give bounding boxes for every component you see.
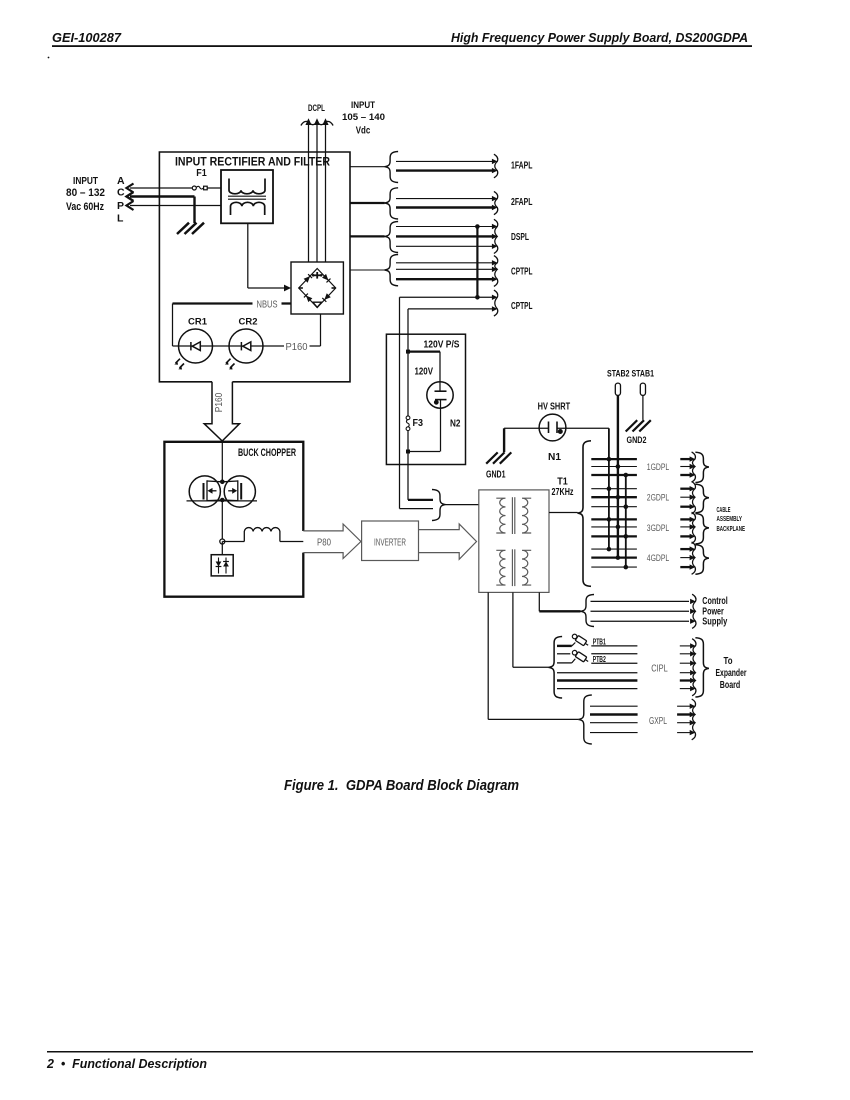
control power arrows bbox=[692, 594, 696, 628]
indicator CR1 circle bbox=[179, 329, 213, 363]
wire transformer to bridge (down) bbox=[247, 223, 249, 288]
bus row 8 bbox=[591, 526, 637, 528]
wire T1 output to bus brace bbox=[549, 512, 578, 514]
svg-text:P80: P80 bbox=[317, 537, 331, 549]
wire fuse F1 to transformer bbox=[207, 187, 221, 189]
CR2 internal wire bbox=[229, 345, 263, 347]
ground GND2 bbox=[626, 420, 638, 431]
DSPL line 1 bbox=[396, 226, 492, 228]
junction dot CPTPL bus bottom bbox=[475, 295, 480, 300]
junction dot v1@519.4 bbox=[607, 517, 612, 522]
svg-text:1FAPL: 1FAPL bbox=[511, 159, 533, 171]
wire DCPL line 2 bbox=[316, 122, 318, 262]
STAB2 terminal stub bbox=[615, 383, 620, 395]
junction dot v1@549.1 bbox=[607, 547, 612, 552]
T1 input gathering brace bbox=[432, 490, 446, 521]
junction dot v3@567.1 bbox=[624, 565, 629, 570]
wire P/S bottom bbox=[408, 451, 440, 453]
svg-text:80 – 132: 80 – 132 bbox=[66, 187, 105, 199]
svg-text:STAB2 STAB1: STAB2 STAB1 bbox=[607, 369, 655, 380]
svg-text:HV SHRT: HV SHRT bbox=[538, 400, 571, 412]
CIPL dash 1 (thick) bbox=[557, 645, 572, 647]
junction dot (transistor bottom) bbox=[220, 498, 225, 503]
header rule bbox=[52, 45, 752, 47]
svg-text:Board: Board bbox=[720, 680, 741, 691]
junction dot DSPL bus top bbox=[475, 224, 480, 229]
2FAPL connector brace bbox=[385, 188, 399, 219]
wire node to inductor bbox=[222, 541, 244, 543]
3GDPL arrows bbox=[680, 518, 691, 520]
CIPL line 6 bbox=[557, 688, 637, 690]
bridge diodes bbox=[304, 274, 312, 282]
wire inductor to P80 arrow bbox=[280, 541, 303, 543]
wire transformer to bridge (right) bbox=[248, 287, 288, 289]
svg-text:T1: T1 bbox=[557, 477, 568, 488]
Q2 symbol bbox=[240, 483, 242, 500]
svg-text:ASSEMBLY: ASSEMBLY bbox=[717, 514, 743, 523]
bus row 2 bbox=[591, 466, 637, 468]
svg-text:F1: F1 bbox=[196, 167, 207, 179]
svg-text:DSPL: DSPL bbox=[511, 231, 529, 243]
bus tie DSPL to CPTPL (vertical) bbox=[476, 227, 478, 298]
2GDPL arrows bbox=[680, 488, 691, 490]
input arrowhead C bbox=[127, 184, 134, 193]
ground (input chassis) bbox=[177, 223, 189, 234]
svg-text:27KHz: 27KHz bbox=[552, 487, 574, 498]
bus row 4 bbox=[591, 488, 637, 490]
CPTPL line 2 bbox=[396, 268, 492, 270]
junction dot v2@557.6 bbox=[616, 555, 621, 560]
2GDPL brace bbox=[695, 484, 709, 513]
filter transformer box bbox=[221, 170, 273, 223]
svg-text:GXPL: GXPL bbox=[649, 715, 667, 727]
wire lamp N2 bottom lead bbox=[440, 400, 442, 452]
bridge rectifier box bbox=[291, 262, 343, 314]
CPTPL2 line 2 bbox=[408, 308, 492, 310]
wire input C to fuse F1 bbox=[130, 187, 192, 189]
CIPL line 2 bbox=[591, 653, 637, 655]
junction dot v1@488.7 bbox=[607, 486, 612, 491]
CPTPL line 1 bbox=[396, 262, 492, 264]
wire input P (thick) bbox=[130, 195, 195, 197]
3GDPL brace bbox=[695, 514, 709, 544]
wire stub to 1FAPL connector bbox=[350, 166, 385, 168]
svg-text:P160: P160 bbox=[214, 392, 225, 412]
junction node ring (inductor node) bbox=[220, 539, 225, 544]
svg-text:105 – 140: 105 – 140 bbox=[342, 112, 385, 123]
wire NBUS (thick) bbox=[173, 302, 253, 304]
1FAPL connector arrows bbox=[494, 154, 498, 178]
wire brace to T1 bbox=[446, 504, 479, 506]
fuse PTB1 bbox=[571, 633, 590, 648]
bus row 11 bbox=[591, 556, 637, 558]
CR1 diode symbol bbox=[192, 342, 200, 351]
CIPL line 4 bbox=[557, 672, 637, 674]
DSPL line 3 bbox=[396, 245, 492, 247]
CIPL dash 3 bbox=[557, 662, 572, 664]
P80 hollow arrow bbox=[303, 524, 361, 559]
svg-text:BUCK CHOPPER: BUCK CHOPPER bbox=[238, 447, 296, 459]
bus gathering brace (left) bbox=[578, 441, 592, 587]
lamp N2 circle bbox=[427, 382, 453, 408]
CPTPL connector arrows bbox=[494, 256, 498, 287]
filter transformer secondary winding bbox=[231, 202, 265, 215]
DCPL connector arrows (up) bbox=[301, 121, 333, 125]
wire lamp N2 top lead bbox=[439, 352, 441, 392]
1FAPL line 2 bbox=[396, 169, 492, 171]
wire node to diode box bbox=[221, 542, 223, 555]
GXPL line 4 bbox=[590, 732, 638, 734]
wire DCPL line 1 bbox=[308, 122, 310, 262]
junction square (P/S bottom) bbox=[406, 450, 410, 454]
wire P160 to CR2 bbox=[264, 345, 285, 347]
gate drive line through transistors bbox=[187, 500, 258, 502]
svg-text:N1: N1 bbox=[548, 451, 561, 463]
junction dot v2@526.9 bbox=[616, 525, 621, 530]
lamp N1 electrodes bbox=[548, 422, 550, 434]
svg-text:Supply: Supply bbox=[702, 617, 727, 628]
CIPL connector arrows bbox=[680, 645, 691, 647]
svg-text:CPTPL: CPTPL bbox=[511, 265, 533, 277]
junction dot v3@506.7 bbox=[624, 504, 629, 509]
STAB1 terminal stub bbox=[640, 383, 645, 395]
wire transistors to inductor node bbox=[221, 500, 223, 542]
svg-text:CR2: CR2 bbox=[239, 317, 258, 327]
2FAPL line 1 bbox=[396, 198, 492, 200]
CPTPL2 connector arrows bbox=[494, 290, 498, 316]
CR1 internal wire bbox=[179, 345, 213, 347]
junction dot v2@497.2 bbox=[616, 495, 621, 500]
bus row 1 bbox=[591, 458, 637, 460]
wire N1 left bbox=[504, 427, 548, 429]
wire CPTPL2-2 down into 120V P/S bbox=[407, 309, 409, 416]
svg-text:INVERTER: INVERTER bbox=[374, 537, 406, 549]
block 120V P/S box bbox=[386, 334, 465, 464]
bus row 7 bbox=[591, 518, 637, 520]
1FAPL line 1 bbox=[396, 160, 492, 162]
CPTPL line 3 bbox=[396, 278, 492, 280]
svg-text:INPUT: INPUT bbox=[73, 175, 98, 187]
wire bridge bottom to P160 node bbox=[320, 314, 322, 346]
junction dot (transistor top) bbox=[220, 480, 225, 485]
CIPL line 5 (thick) bbox=[557, 679, 637, 681]
svg-text:Vac 60Hz: Vac 60Hz bbox=[66, 201, 104, 213]
wire N1 to GND1 (thick) bbox=[503, 428, 505, 452]
Q1 symbol bbox=[203, 483, 205, 500]
svg-text:4GDPL: 4GDPL bbox=[647, 553, 670, 564]
bus row 12 bbox=[591, 566, 637, 568]
svg-text:NBUS: NBUS bbox=[257, 299, 278, 311]
input arrowhead P bbox=[127, 192, 134, 201]
CIPL line 3 bbox=[591, 662, 637, 664]
wire N1 right to bus bbox=[557, 427, 609, 429]
expander brace bbox=[695, 638, 709, 697]
svg-text:CIPL: CIPL bbox=[651, 663, 668, 675]
GXPL line 3 bbox=[590, 722, 638, 724]
bus vertical v1 (from N1) bbox=[608, 428, 610, 549]
ground GND1 bbox=[486, 452, 498, 463]
GXPL line 1 bbox=[590, 705, 638, 707]
freewheel diode box bbox=[211, 555, 233, 576]
wire DCPL line 3 bbox=[325, 122, 327, 262]
freewheel diodes bbox=[218, 558, 220, 574]
bus vertical v2 (from STAB2, thick) bbox=[617, 395, 619, 557]
svg-text:CABLE: CABLE bbox=[717, 505, 731, 514]
svg-text:L: L bbox=[117, 213, 124, 225]
wire T1 bottom to CIPL bbox=[512, 592, 514, 667]
inverter output hollow arrow bbox=[419, 524, 477, 559]
svg-text:CR1: CR1 bbox=[188, 317, 207, 327]
fuse F3 bbox=[406, 416, 410, 420]
wire T1 feed thin turn bbox=[400, 508, 434, 510]
CR2 diode symbol bbox=[243, 342, 251, 351]
svg-text:A: A bbox=[117, 175, 125, 187]
T1 upper transformer bbox=[496, 498, 505, 533]
svg-text:2GDPL: 2GDPL bbox=[647, 493, 670, 504]
junction square (P/S top) bbox=[406, 350, 410, 354]
wire CPTPL2-1 down to T1 feed bbox=[399, 297, 401, 508]
1FAPL connector brace bbox=[385, 152, 399, 183]
P160 hollow arrow (down into buck chopper) bbox=[204, 382, 239, 441]
wire to CIPL brace bbox=[513, 666, 549, 668]
junction dot v3@475.0 bbox=[624, 473, 629, 478]
GXPL connector arrows bbox=[677, 705, 690, 707]
svg-text:F3: F3 bbox=[413, 417, 424, 429]
wire T1 bottom to control power bbox=[538, 592, 540, 611]
wire STAB1 to GND2 bbox=[642, 395, 644, 420]
wire P/S top (thick) bbox=[408, 351, 440, 353]
bus row 10 bbox=[591, 548, 637, 550]
svg-text:C: C bbox=[117, 187, 125, 199]
svg-text:120V: 120V bbox=[415, 366, 434, 378]
bus row 6 bbox=[591, 506, 637, 508]
bus row 9 bbox=[591, 535, 637, 537]
svg-text:GND2: GND2 bbox=[627, 435, 647, 446]
arrowhead into bridge bbox=[284, 285, 291, 292]
lamp N1 circle bbox=[539, 414, 566, 441]
T1 lower transformer bbox=[496, 550, 505, 585]
svg-text:P: P bbox=[117, 200, 124, 212]
stray dot under header bbox=[48, 57, 50, 59]
junction dot v2@466.5 bbox=[616, 464, 621, 469]
GXPL connector brace bbox=[578, 695, 592, 744]
svg-text:P160: P160 bbox=[286, 341, 308, 353]
junction dot v3@536.4 bbox=[624, 534, 629, 539]
4GDPL arrows bbox=[680, 548, 691, 550]
CPTPL connector brace bbox=[385, 255, 399, 286]
wire CR1 to CR2 bbox=[213, 345, 230, 347]
wire input L to filter transformer bbox=[130, 205, 221, 207]
bus row 5 bbox=[591, 496, 637, 498]
control power connector brace bbox=[581, 595, 595, 627]
wire input P drop to ground bbox=[193, 197, 195, 224]
fuse F1 bbox=[192, 186, 196, 190]
svg-text:Figure 1. GDPA Board Block Di: Figure 1. GDPA Board Block Diagram bbox=[284, 778, 519, 794]
1GDPL brace bbox=[695, 452, 709, 482]
svg-text:N2: N2 bbox=[450, 418, 461, 430]
fuse PTB2 bbox=[571, 649, 590, 664]
CIPL connector brace bbox=[549, 637, 563, 699]
wire P160 node horizontal bbox=[310, 345, 321, 347]
svg-text:DCPL: DCPL bbox=[308, 103, 325, 114]
svg-text:2 • Functional Description: 2 • Functional Description bbox=[46, 1057, 207, 1071]
4GDPL brace bbox=[695, 545, 709, 575]
svg-text:High Frequency Power Supply Bo: High Frequency Power Supply Board, DS200… bbox=[451, 30, 748, 45]
block BUCK CHOPPER box (gap at right for P80 arrow) bbox=[164, 442, 303, 597]
control power line 1 bbox=[591, 600, 690, 602]
wire stub to DSPL connector bbox=[350, 235, 385, 237]
wire P160 into transistors bbox=[221, 441, 223, 482]
CR1 LED emission arrows bbox=[176, 359, 181, 364]
svg-text:To: To bbox=[724, 656, 733, 667]
svg-text:GND1: GND1 bbox=[486, 469, 506, 481]
svg-text:Vdc: Vdc bbox=[356, 125, 371, 137]
svg-text:3GDPL: 3GDPL bbox=[647, 523, 670, 534]
CR2 LED emission arrows bbox=[226, 359, 231, 364]
svg-text:PTB1: PTB1 bbox=[593, 638, 606, 647]
transistor Q2 circle bbox=[224, 476, 255, 507]
CPTPL2 line 1 bbox=[400, 296, 493, 298]
DSPL line 2 bbox=[396, 235, 492, 237]
bus vertical v3 bbox=[625, 475, 627, 567]
bridge diamond bbox=[299, 269, 336, 308]
transistor Q1 circle bbox=[189, 476, 220, 507]
wire T1 bottom to GXPL bbox=[487, 592, 489, 719]
wire to control power brace (thick) bbox=[539, 610, 580, 612]
2FAPL line 2 bbox=[396, 206, 492, 208]
DSPL connector arrows bbox=[494, 219, 498, 253]
svg-text:Expander: Expander bbox=[716, 668, 747, 679]
wire F3 to bottom junction bbox=[407, 431, 409, 500]
inductor L1 bbox=[244, 528, 280, 542]
2FAPL connector arrows bbox=[494, 191, 498, 214]
svg-text:CPTPL: CPTPL bbox=[511, 300, 533, 312]
input arrowhead L bbox=[127, 201, 134, 210]
lamp N2 electrodes bbox=[435, 390, 447, 392]
control power line 3 bbox=[591, 620, 690, 622]
svg-text:BACKPLANE: BACKPLANE bbox=[717, 524, 746, 533]
wire NBUS down to CR1 bbox=[172, 304, 174, 347]
GXPL line 2 bbox=[590, 713, 638, 715]
filter transformer core bbox=[228, 195, 266, 197]
CIPL dash 2 bbox=[557, 653, 570, 655]
wire stub to 2FAPL connector bbox=[350, 202, 385, 204]
indicator CR2 circle bbox=[229, 329, 263, 363]
block transformer T1 box bbox=[479, 490, 549, 593]
junction dot v1@459.1 bbox=[607, 457, 612, 462]
footer rule bbox=[47, 1051, 753, 1053]
svg-text:120V P/S: 120V P/S bbox=[424, 339, 460, 351]
svg-text:GEI-100287: GEI-100287 bbox=[52, 31, 122, 45]
svg-text:INPUT: INPUT bbox=[351, 100, 375, 111]
1GDPL arrows bbox=[680, 458, 691, 460]
wire NBUS stub to CR1 bbox=[173, 345, 179, 347]
bridge corner marks bbox=[314, 274, 321, 276]
DSPL connector brace bbox=[385, 222, 399, 253]
wire NBUS to bridge bbox=[282, 302, 292, 304]
CIPL line 1 bbox=[591, 645, 637, 647]
wire stub to CPTPL connector bbox=[350, 269, 385, 271]
wire P/S feed thick turn bbox=[408, 499, 433, 501]
filter transformer primary winding bbox=[229, 179, 265, 194]
svg-text:2FAPL: 2FAPL bbox=[511, 196, 533, 208]
wire to GXPL brace bbox=[488, 718, 578, 720]
block INPUT RECTIFIER AND FILTER box (gap at bottom for P160 arrow) bbox=[159, 152, 350, 382]
svg-text:1GDPL: 1GDPL bbox=[647, 462, 670, 473]
block INVERTER box bbox=[362, 521, 419, 561]
control power line 2 bbox=[591, 610, 690, 612]
bus row 3 bbox=[591, 474, 637, 476]
